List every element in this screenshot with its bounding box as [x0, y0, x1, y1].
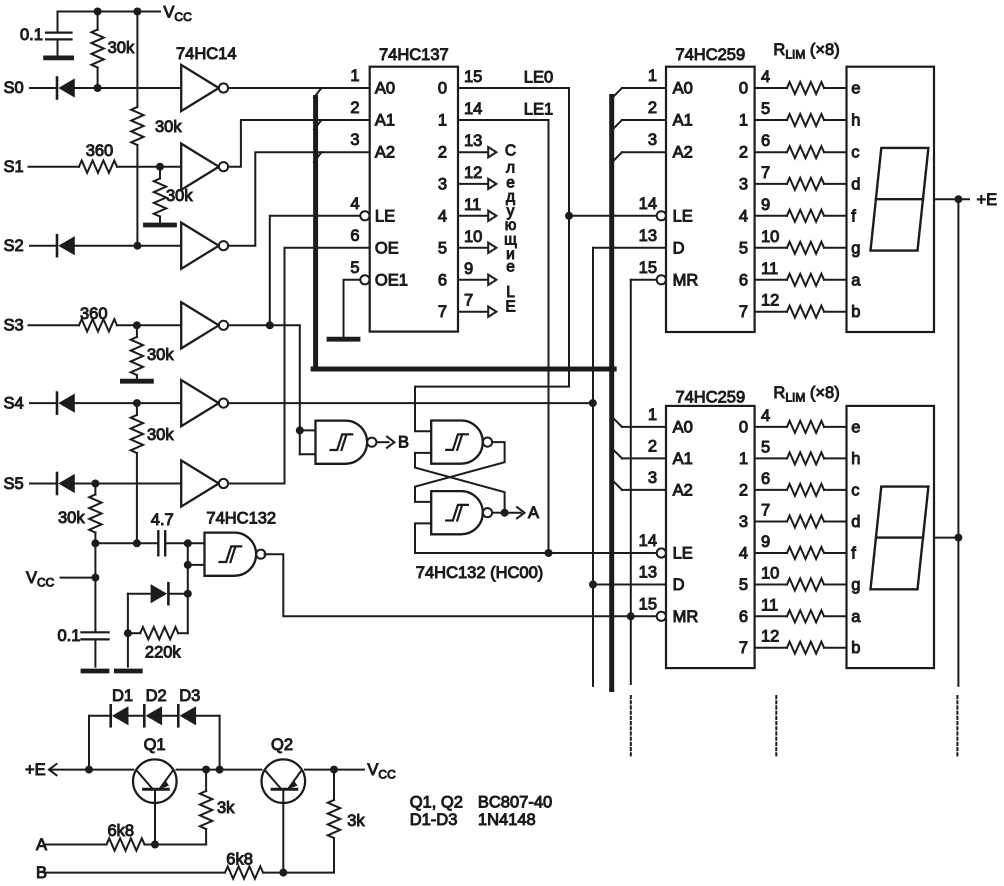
svg-text:7: 7	[761, 164, 770, 182]
svg-text:5: 5	[438, 239, 447, 257]
wire S0 to inverter	[75, 87, 181, 89]
ground for R6	[122, 379, 151, 384]
svg-text:1N4148: 1N4148	[478, 811, 536, 829]
svg-text:1: 1	[648, 67, 657, 85]
wire S3 to 74HC137 LE	[270, 216, 360, 325]
bus entry A0 left	[314, 88, 322, 98]
svg-text:f: f	[851, 207, 856, 225]
HG1 seven-segment glyph	[871, 148, 929, 251]
node D lower junction	[589, 581, 597, 589]
resistor R2 30k pullup S2	[136, 12, 138, 108]
svg-text:A2: A2	[673, 481, 693, 499]
node VD5 cathode junction	[184, 590, 192, 598]
svg-text:A0: A0	[673, 80, 693, 98]
gate U2.4 Schmitt NAND FF lower	[431, 491, 483, 534]
svg-text:С: С	[505, 142, 516, 159]
node NAND input1 junction	[184, 539, 192, 547]
svg-text:3k: 3k	[347, 812, 365, 830]
wire U3 output 6 arrow	[458, 279, 488, 281]
svg-text:D3: D3	[179, 687, 200, 705]
wire D net vertical	[592, 248, 594, 686]
wire S1 input	[29, 166, 80, 168]
wire A input	[45, 844, 107, 846]
svg-text:c: c	[851, 481, 859, 499]
bus bottom horizontal	[313, 367, 614, 372]
node S3 junction R6	[133, 321, 141, 329]
svg-text:12: 12	[464, 164, 482, 182]
svg-text:OE1: OE1	[375, 271, 408, 289]
wire R10 to base node	[155, 844, 206, 846]
svg-text:6: 6	[739, 271, 748, 289]
svg-text:7: 7	[761, 502, 770, 520]
resistor Rlim8 lower	[755, 647, 787, 649]
bus entry A1 left	[314, 120, 322, 130]
wire VCC node rail	[95, 542, 158, 544]
svg-text:е: е	[506, 259, 515, 276]
svg-text:D1: D1	[112, 687, 133, 705]
svg-text:4: 4	[438, 207, 447, 225]
wire S5 inverter output to OE	[228, 248, 370, 484]
svg-text:30k: 30k	[155, 118, 182, 136]
svg-text:S3: S3	[4, 317, 24, 335]
gate U2.1 74HC132 Schmitt NAND	[205, 533, 257, 576]
wire HG2 common to +E	[934, 537, 958, 539]
wire Q2 base	[282, 789, 284, 872]
bus entry A2 left	[314, 152, 322, 162]
svg-text:6: 6	[350, 227, 359, 245]
svg-text:4: 4	[739, 545, 748, 563]
svg-text:15: 15	[639, 595, 657, 613]
svg-text:74HC132: 74HC132	[206, 510, 276, 528]
svg-text:14: 14	[639, 532, 657, 550]
svg-text:3: 3	[350, 131, 359, 149]
node Q1 base junction	[151, 841, 159, 849]
node VCC rail junctions	[91, 539, 99, 547]
svg-text:e: e	[851, 80, 860, 98]
resistor Rlim5 upper	[755, 215, 787, 217]
svg-text:30k: 30k	[58, 509, 85, 527]
svg-text:3: 3	[739, 175, 748, 193]
inverter U1.1 74HC14	[181, 65, 219, 111]
resistor Rlim8 upper	[755, 311, 787, 313]
resistor Rlim1 upper	[755, 87, 787, 89]
wire D1-D3 chain riser left	[88, 716, 90, 770]
svg-text:f: f	[851, 545, 856, 563]
node +E junction lower	[954, 534, 962, 542]
wire FF lower input2 to LE	[415, 523, 657, 553]
wire OE1 to ground	[344, 280, 361, 337]
svg-text:g: g	[851, 576, 860, 594]
diode D1	[109, 705, 112, 726]
wire S3 resistor to inverter	[117, 324, 181, 326]
svg-text:13: 13	[639, 564, 657, 582]
svg-text:D: D	[673, 239, 685, 257]
resistor R3 360 series S1	[79, 161, 117, 173]
svg-text:0: 0	[739, 418, 748, 436]
wire S4 to inverter	[75, 402, 181, 404]
svg-text:LE: LE	[375, 207, 395, 225]
svg-text:5: 5	[350, 259, 359, 277]
resistor Rlim5 lower	[755, 552, 787, 554]
wire LE0 net	[415, 88, 569, 431]
svg-text:OE: OE	[375, 239, 399, 257]
svg-text:D2: D2	[146, 687, 167, 705]
svg-text:6: 6	[739, 608, 748, 626]
inverter U1.5 74HC14	[181, 380, 219, 426]
svg-text:30k: 30k	[147, 346, 174, 364]
svg-text:1: 1	[438, 112, 447, 130]
svg-text:3: 3	[648, 131, 657, 149]
diode D3	[177, 705, 180, 726]
svg-text:2: 2	[739, 144, 748, 162]
svg-text:30k: 30k	[108, 39, 135, 57]
svg-text:74HC137: 74HC137	[379, 46, 449, 64]
svg-text:D1-D3: D1-D3	[410, 811, 458, 829]
resistor Rlim2 lower	[755, 457, 787, 459]
svg-text:d: d	[851, 175, 860, 193]
wire FF upper output cross	[415, 442, 505, 502]
wire U4 D	[593, 247, 666, 249]
wire FF lower output	[492, 512, 504, 514]
wire LE0 to U4 LE	[569, 215, 656, 217]
wire HG1 common to +E	[934, 198, 969, 200]
wire A output arrow	[505, 512, 521, 514]
resistor R10 3k Q1	[205, 770, 207, 791]
ground for R4	[146, 223, 175, 228]
svg-text:3: 3	[739, 513, 748, 531]
svg-text:11: 11	[761, 260, 778, 278]
capacitor C2 0.1	[81, 631, 108, 633]
node LE0 junction	[565, 212, 573, 220]
capacitor C3 4.7 coupling	[157, 531, 159, 555]
svg-text:74HC132 (HC00): 74HC132 (HC00)	[416, 564, 543, 582]
node S3 output junction	[266, 321, 274, 329]
wire B gate inputs	[300, 429, 316, 431]
svg-text:74HC14: 74HC14	[176, 45, 237, 63]
diode VD3 S4	[56, 393, 59, 414]
node VD5 anode junction	[124, 629, 132, 637]
svg-text:BC807-40: BC807-40	[478, 794, 552, 812]
ground for C2	[83, 669, 107, 674]
svg-text:12: 12	[761, 292, 779, 310]
wire U3 output 4 arrow	[458, 215, 488, 217]
wire bus to U4 A2	[622, 151, 666, 153]
svg-text:9: 9	[761, 533, 770, 551]
svg-text:6: 6	[761, 470, 770, 488]
svg-text:13: 13	[464, 132, 482, 150]
node S2 junction	[133, 242, 141, 250]
node S4 junction	[133, 399, 141, 407]
svg-text:14: 14	[464, 100, 482, 118]
svg-text:S5: S5	[4, 475, 24, 493]
diode VD4 S5	[56, 473, 59, 494]
wire S0 input	[30, 87, 57, 89]
svg-text:a: a	[851, 608, 861, 626]
svg-text:11: 11	[761, 596, 778, 614]
node Q2 base junction	[279, 869, 287, 877]
node +E junction upper	[954, 195, 962, 203]
wire NAND input2	[188, 564, 205, 566]
wire continuation MR dashed	[630, 696, 632, 757]
svg-text:2: 2	[350, 99, 359, 117]
wire S1 inverter output to A1	[228, 120, 370, 167]
wire S3 to NAND B input	[299, 325, 301, 430]
svg-text:LE: LE	[673, 545, 693, 563]
svg-text:1: 1	[739, 112, 748, 130]
IC U5 74HC259 body	[666, 406, 755, 668]
svg-text:4: 4	[761, 407, 770, 425]
svg-text:a: a	[851, 271, 861, 289]
node MR lower junction	[627, 612, 635, 620]
svg-text:MR: MR	[673, 608, 699, 626]
wire S2 input	[30, 245, 57, 247]
svg-text:RLIM (×8): RLIM (×8)	[773, 384, 839, 405]
svg-text:15: 15	[639, 259, 657, 277]
svg-text:A: A	[528, 504, 539, 522]
svg-text:1: 1	[739, 450, 748, 468]
resistor R1 30k pullup S0	[97, 12, 99, 31]
wire U2.1 output to MR line	[265, 554, 657, 616]
wire U3 output 2 arrow	[458, 151, 488, 153]
svg-text:LE0: LE0	[524, 69, 553, 87]
svg-text:5: 5	[739, 576, 748, 594]
gate U2.2 Schmitt NAND B	[316, 421, 368, 464]
resistor Rlim3 upper	[755, 151, 787, 153]
svg-text:E: E	[505, 299, 515, 316]
svg-text:0.1: 0.1	[20, 26, 43, 44]
svg-text:15: 15	[464, 68, 482, 86]
svg-text:B: B	[398, 434, 409, 452]
svg-text:A0: A0	[375, 80, 395, 98]
svg-text:6k8: 6k8	[226, 851, 253, 869]
svg-text:c: c	[851, 144, 859, 162]
diode VD2 S2	[56, 235, 59, 256]
node D3 rail junction	[216, 766, 224, 774]
resistor R7 30k pullup S4	[136, 403, 138, 415]
display HG1 body	[847, 67, 935, 332]
wire R9 to ground	[127, 633, 129, 666]
svg-text:1: 1	[648, 406, 657, 424]
wire VCC down	[94, 543, 96, 632]
wire U3 output 3 arrow	[458, 183, 488, 185]
node Q1 3k junction	[202, 766, 210, 774]
ground for C1	[46, 56, 72, 61]
transistor Q2	[262, 759, 306, 803]
svg-text:A1: A1	[673, 112, 693, 130]
wire R12 to Q2 base	[283, 872, 334, 874]
bus right vertical	[609, 97, 614, 690]
wire +E vertical	[957, 199, 959, 686]
resistor R5 360 series S3	[79, 319, 117, 331]
svg-text:0: 0	[739, 80, 748, 98]
svg-text:A0: A0	[673, 418, 693, 436]
svg-text:6k8: 6k8	[108, 822, 135, 840]
svg-text:A2: A2	[375, 144, 395, 162]
svg-text:+E: +E	[25, 761, 46, 779]
wire MR net vertical	[630, 280, 632, 684]
svg-text:Q2: Q2	[271, 736, 293, 754]
inverter U1.6 74HC14	[181, 460, 219, 506]
gate U2.3 Schmitt NAND FF upper	[431, 421, 483, 464]
transistor Q1	[133, 759, 177, 803]
wire D3 to rail	[196, 715, 220, 717]
wire +E rail right	[305, 769, 364, 771]
svg-text:h: h	[851, 450, 860, 468]
wire +E rail arrow	[49, 764, 57, 775]
node B gate input junction	[296, 426, 304, 434]
svg-text:7: 7	[438, 303, 447, 321]
node Q2 3k junction	[330, 766, 338, 774]
node S4 to D junction	[589, 399, 597, 407]
svg-text:S4: S4	[4, 394, 24, 412]
resistor Rlim1 lower	[755, 426, 787, 428]
wire bus to U4 A1	[622, 119, 666, 121]
svg-text:LE: LE	[673, 207, 693, 225]
svg-text:14: 14	[639, 195, 657, 213]
svg-text:A1: A1	[375, 112, 395, 130]
node A output junction	[501, 509, 509, 517]
wire LE1 net	[458, 120, 549, 553]
svg-text:LE1: LE1	[524, 101, 553, 119]
svg-text:4: 4	[761, 68, 770, 86]
svg-text:MR: MR	[673, 271, 699, 289]
capacitor C1 0.1 decoupling	[57, 12, 59, 32]
svg-text:360: 360	[80, 305, 108, 323]
wire S0 inverter output to A0	[228, 87, 370, 89]
resistor Rlim6 lower	[755, 584, 787, 586]
resistor R9 220k	[128, 632, 140, 634]
svg-text:13: 13	[639, 227, 657, 245]
svg-text:4.7: 4.7	[151, 511, 174, 529]
ground for OE1	[329, 337, 358, 342]
svg-text:5: 5	[739, 239, 748, 257]
svg-text:3k: 3k	[217, 799, 235, 817]
node VCC junction dots	[94, 8, 102, 16]
svg-text:30k: 30k	[147, 426, 174, 444]
svg-text:+E: +E	[977, 191, 998, 209]
svg-text:S0: S0	[4, 79, 24, 97]
svg-text:S1: S1	[4, 158, 24, 176]
svg-text:S2: S2	[4, 237, 24, 255]
svg-text:10: 10	[464, 228, 482, 246]
svg-text:12: 12	[761, 628, 779, 646]
resistor R6 30k pulldown S3	[136, 325, 138, 337]
svg-text:10: 10	[761, 565, 779, 583]
svg-text:11: 11	[464, 196, 481, 214]
wire bus to U5 A0	[622, 426, 666, 428]
diode D2	[143, 705, 146, 726]
resistor Rlim7 lower	[755, 615, 787, 617]
wire B gate output arrow	[377, 441, 389, 443]
HG2 seven-segment glyph	[871, 487, 929, 590]
svg-text:7: 7	[739, 303, 748, 321]
resistor Rlim3 lower	[755, 489, 787, 491]
node D1 junction	[85, 766, 93, 774]
resistor R12 3k Q2	[333, 770, 335, 800]
wire S2 to inverter	[75, 245, 181, 247]
svg-text:1: 1	[350, 67, 359, 85]
wire D2 to D3	[162, 715, 178, 717]
svg-text:9: 9	[464, 260, 473, 278]
svg-text:RLIM (×8): RLIM (×8)	[773, 41, 839, 62]
svg-text:A2: A2	[673, 144, 693, 162]
wire R13 to Q2 base	[263, 872, 283, 874]
resistor Rlim2 upper	[755, 119, 787, 121]
wire continuation +E dashed	[956, 696, 958, 757]
node LE1 junction	[545, 549, 553, 557]
resistor Rlim4 upper	[755, 183, 787, 185]
node S5 junction	[91, 480, 99, 488]
resistor Rlim6 upper	[755, 247, 787, 249]
svg-text:360: 360	[86, 142, 114, 160]
svg-text:3: 3	[438, 175, 447, 193]
resistor Rlim7 upper	[755, 279, 787, 281]
svg-text:3: 3	[648, 469, 657, 487]
resistor R11 6k8	[107, 838, 145, 850]
display HG2 body	[847, 406, 935, 668]
resistor R8 30k pullup S5	[94, 484, 96, 495]
svg-text:Q1: Q1	[144, 736, 166, 754]
wire bus to U5 A2	[622, 489, 666, 491]
inverter U1.3 74HC14	[181, 223, 219, 269]
wire S3 input	[29, 324, 80, 326]
wire B input	[45, 872, 225, 874]
wire S2 inverter output to A2	[228, 152, 370, 246]
svg-text:g: g	[851, 239, 860, 257]
wire U3 output 7 arrow	[458, 311, 488, 313]
wire VCC top rail	[58, 11, 161, 13]
svg-text:30k: 30k	[166, 187, 193, 205]
resistor R13 6k8	[225, 866, 263, 878]
svg-text:74HC259: 74HC259	[675, 389, 745, 407]
svg-text:A1: A1	[673, 450, 693, 468]
resistor R4 30k pulldown S1	[159, 167, 161, 179]
wire FF lower output cross	[415, 453, 505, 513]
svg-text:10: 10	[761, 228, 779, 246]
node NAND input2 junction	[184, 561, 192, 569]
svg-text:0: 0	[438, 80, 447, 98]
wire D1-D3 chain	[89, 715, 111, 717]
IC U3 74HC137 body	[370, 67, 458, 332]
wire Q1 base	[154, 789, 156, 844]
svg-text:2: 2	[648, 437, 657, 455]
inverter U1.4 74HC14	[181, 302, 219, 348]
wire U4 MR	[631, 279, 657, 281]
node VCC tap junction	[91, 574, 99, 582]
resistor Rlim4 lower	[755, 521, 787, 523]
wire S3 inverter output	[228, 324, 300, 326]
svg-text:0.1: 0.1	[58, 627, 81, 645]
diode VD5 discharge	[127, 594, 129, 634]
node S0 junction	[94, 84, 102, 92]
svg-text:4: 4	[350, 195, 359, 213]
svg-text:9: 9	[761, 196, 770, 214]
wire continuation mid dashed	[775, 696, 777, 757]
wire S5 input	[30, 483, 57, 485]
diode VD1 S0	[56, 78, 59, 99]
bus left vertical	[313, 98, 318, 370]
svg-text:4: 4	[739, 207, 748, 225]
node S1 junction	[156, 163, 164, 171]
wire D1 to D2	[129, 715, 145, 717]
svg-text:h: h	[851, 112, 860, 130]
svg-text:D: D	[673, 576, 685, 594]
wire VCC tap	[61, 577, 96, 579]
wire S4 inverter output to D line	[228, 402, 593, 404]
svg-text:2: 2	[739, 481, 748, 499]
wire NAND input tie	[187, 543, 189, 633]
svg-text:220k: 220k	[145, 644, 182, 662]
